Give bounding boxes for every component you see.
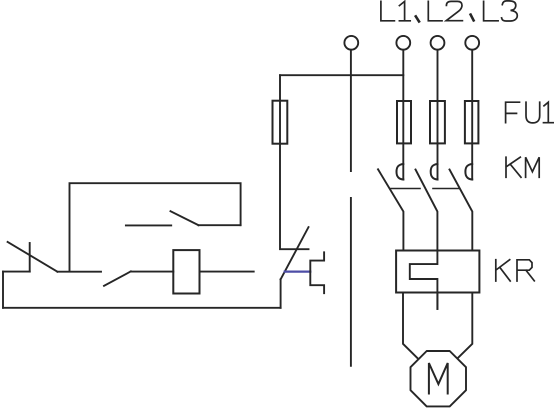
KR trip contact arm <box>8 242 58 272</box>
wire: rung left segment <box>3 271 30 273</box>
control fuse FU2 <box>273 101 288 144</box>
SB1 pushbutton actuator <box>310 252 324 293</box>
terminal circle L1 <box>396 36 410 50</box>
contactor coil KM <box>173 250 199 293</box>
wire: L2 drop <box>437 50 439 180</box>
contactor KM fixed contact hook 3 <box>465 164 472 180</box>
wire: SB1 to bottom rail <box>280 279 282 307</box>
SB1 mechanical link (blue) <box>285 271 311 273</box>
KM auxiliary contact left wire <box>126 224 171 226</box>
wire: L1 drop <box>402 50 404 180</box>
fuse FU1 pole 1 <box>397 101 411 143</box>
terminal circle L3 <box>465 36 479 50</box>
KM mechanical linkage dash 1 <box>391 188 420 190</box>
contactor KM arm 3 <box>450 170 473 251</box>
label KM <box>506 157 539 177</box>
wire: rung middle segment <box>57 271 101 273</box>
contactor KM arm 2 <box>416 170 438 251</box>
wire: KR to motor lead 2 (stub) <box>436 292 438 309</box>
KR heater element (middle pole detour) <box>410 251 438 309</box>
fuse FU1 pole 3 <box>465 101 479 143</box>
KR trip contact bar <box>29 243 31 272</box>
wire: L3 drop <box>471 50 473 180</box>
wire: coil right <box>200 271 254 273</box>
label KR <box>496 260 535 281</box>
motor letter M <box>429 363 448 394</box>
wire: tap from L1 to control circuit <box>280 74 403 76</box>
start button SB2 arm <box>104 271 131 285</box>
wire: tall vertical from terminal 1 (lower segment) <box>350 198 352 366</box>
label FU1 <box>506 102 554 123</box>
stop button SB1 contact arm <box>281 227 309 279</box>
wire: left edge down <box>2 272 4 308</box>
wire: bottom rail <box>3 307 281 309</box>
motor M circle <box>411 351 467 406</box>
contactor KM fixed contact hook 2 <box>431 164 438 180</box>
wire: SB2 to coil <box>131 271 174 273</box>
contactor KM fixed contact hook 1 <box>397 164 404 180</box>
wire: control drop from tap to stop button <box>280 75 309 249</box>
KM mechanical linkage dash 2 <box>433 188 459 190</box>
terminal circle L2 <box>431 36 445 50</box>
wire: holding-circuit loop (left vertical + top line + right vertical) <box>70 183 241 271</box>
fuse FU1 pole 2 <box>430 101 445 143</box>
thermal relay KR box <box>396 251 479 293</box>
wire: tall vertical from terminal 1 (upper segment) <box>350 50 352 171</box>
KM auxiliary contact right wire <box>199 224 241 226</box>
wire: KR to motor lead 1 <box>403 292 418 358</box>
label L1.L2.L3 <box>381 1 517 22</box>
terminal circle 1 <box>344 36 358 50</box>
wire: KR to motor lead 3 <box>458 292 472 357</box>
contactor KM arm 1 <box>378 169 403 250</box>
KM auxiliary contact arm <box>171 211 199 225</box>
